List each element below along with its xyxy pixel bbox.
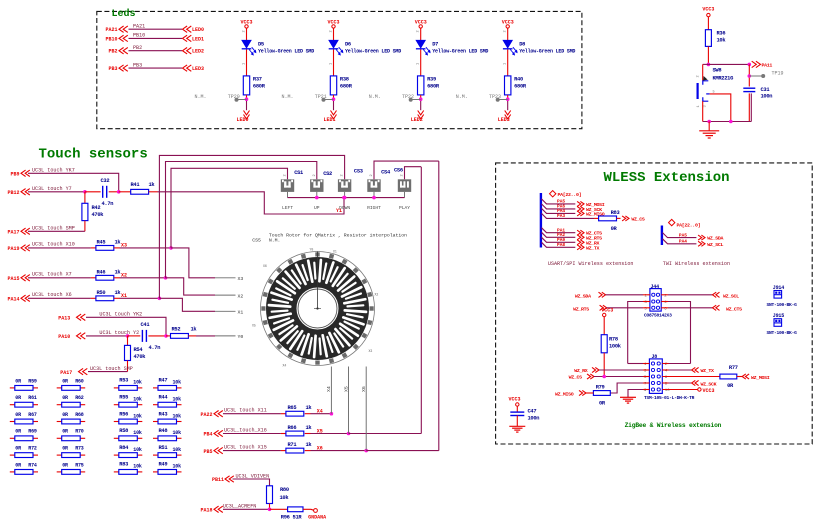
resistor R73 0R	[57, 454, 62, 456]
svg-text:UC3L touch X11: UC3L touch X11	[224, 408, 267, 414]
svg-text:2: 2	[284, 174, 288, 176]
svg-text:R38: R38	[340, 76, 349, 82]
svg-text:1: 1	[504, 63, 508, 65]
rotor stub X6	[365, 367, 367, 451]
svg-text:Yellow-Green LED SMD: Yellow-Green LED SMD	[258, 48, 314, 54]
wire J44.6 to WZ_CTS	[661, 307, 668, 309]
touch button CS1 (LEFT)	[281, 179, 294, 192]
wire	[166, 335, 171, 337]
svg-text:WZ_MOSI: WZ_MOSI	[751, 375, 770, 381]
svg-text:2: 2	[341, 174, 345, 176]
wire	[603, 353, 605, 377]
wire	[148, 335, 166, 337]
node PA17 (2) / net UC3L touch SMP	[88, 371, 128, 373]
resistor R58 10k	[114, 437, 119, 439]
capacitor C31 100n	[743, 88, 755, 91]
svg-text:R52: R52	[172, 326, 181, 332]
wire switch pole to bottom	[710, 94, 731, 122]
resistor R83 10k	[114, 471, 119, 473]
wire bus branch PA5 -> net WZ_MOSI	[542, 199, 576, 204]
svg-text:R66: R66	[288, 425, 297, 431]
svg-text:CS5: CS5	[252, 237, 261, 243]
resistor R71 1k	[286, 448, 304, 453]
touch button CS3 (DOWN)	[338, 179, 351, 192]
junction node SW8/R36	[707, 63, 711, 67]
svg-text:PB2: PB2	[133, 45, 142, 51]
wire	[333, 28, 335, 40]
wire SMP	[28, 230, 85, 232]
wire	[270, 508, 288, 510]
wire J44.4 to J8.2	[661, 301, 668, 303]
Leds section dashed frame	[97, 11, 582, 128]
junction WZ_CS/R78	[602, 375, 606, 379]
junction	[169, 246, 173, 250]
resistor R39 680R	[418, 76, 424, 95]
svg-text:2: 2	[697, 75, 701, 77]
resistor R53 10k	[114, 387, 119, 389]
wire	[269, 504, 271, 510]
wire	[311, 450, 367, 452]
wire button bottom pin	[287, 192, 289, 198]
wire bus branch PA4 -> net WZ_MISO	[542, 208, 576, 213]
svg-text:PB2: PB2	[108, 49, 117, 55]
svg-text:R40: R40	[514, 76, 523, 82]
junction	[158, 297, 162, 301]
junction YK2 joins	[164, 334, 168, 338]
resistor R83 0R	[599, 216, 617, 221]
svg-text:KMR221G: KMR221G	[713, 76, 734, 82]
wire	[516, 416, 518, 427]
capacitor C32 4.7n	[103, 186, 107, 198]
net WZ_MOSI from R77	[742, 374, 749, 379]
ground	[620, 397, 636, 403]
wire CS4 top to X6 riser	[374, 161, 439, 179]
wire X3 to rotor stub	[120, 247, 172, 249]
svg-text:PB12: PB12	[7, 190, 19, 196]
svg-text:PB3: PB3	[108, 66, 117, 72]
svg-text:WZ_RX: WZ_RX	[574, 368, 588, 374]
wire	[246, 95, 248, 99]
svg-text:R73: R73	[75, 446, 84, 452]
svg-text:PA21: PA21	[105, 27, 117, 33]
svg-text:0R: 0R	[15, 446, 21, 452]
svg-text:R78: R78	[609, 337, 618, 343]
wire	[28, 277, 91, 279]
power VCC3 for D8	[506, 25, 509, 28]
svg-text:TP22: TP22	[402, 94, 414, 100]
wire switch common	[702, 101, 704, 121]
net GNDANA terminal	[314, 509, 318, 513]
svg-text:TSM-105-01-L-DH-K-TR: TSM-105-01-L-DH-K-TR	[644, 395, 695, 401]
svg-text:R83: R83	[611, 210, 620, 216]
wire	[305, 413, 311, 415]
svg-text:N.M.: N.M.	[456, 94, 468, 100]
svg-text:CS3: CS3	[354, 169, 363, 175]
svg-text:J8: J8	[652, 354, 658, 360]
wire	[707, 17, 709, 30]
svg-text:PA5: PA5	[679, 232, 687, 238]
svg-text:X1: X1	[238, 310, 244, 316]
power VCC3 for D5	[245, 25, 248, 28]
svg-text:SNT-100-BK-G: SNT-100-BK-G	[767, 302, 798, 308]
touch button CS4 (RIGHT)	[367, 179, 380, 192]
wire	[507, 95, 509, 99]
svg-text:UC3L touch YK2: UC3L touch YK2	[99, 312, 142, 318]
svg-text:Y0: Y0	[238, 334, 244, 340]
svg-text:SNT-100-BK-G: SNT-100-BK-G	[767, 330, 798, 336]
svg-text:R58: R58	[119, 428, 128, 434]
svg-text:R65: R65	[288, 405, 297, 411]
junction	[364, 449, 368, 453]
svg-text:UC3L touch Y2: UC3L touch Y2	[99, 330, 139, 336]
wire	[305, 450, 311, 452]
resistor R74 0R	[10, 471, 15, 473]
junction R42/C32	[83, 190, 87, 194]
svg-text:WZ_CS: WZ_CS	[569, 375, 583, 381]
svg-text:R68: R68	[75, 412, 84, 418]
wire	[84, 221, 86, 232]
svg-text:0R: 0R	[15, 412, 21, 418]
WLESS Extension dashed frame	[496, 163, 813, 444]
svg-text:VCC3: VCC3	[601, 308, 613, 314]
svg-text:LED0: LED0	[237, 117, 249, 123]
svg-text:LEFT: LEFT	[282, 205, 293, 211]
junction at TP21	[332, 97, 336, 101]
svg-text:PA17: PA17	[60, 370, 72, 376]
net WZ_TX from J8.4	[662, 369, 668, 371]
svg-text:Leds: Leds	[112, 8, 136, 20]
resistor R72 0R	[10, 454, 15, 456]
svg-text:0R: 0R	[62, 462, 68, 468]
svg-text:10k: 10k	[717, 38, 727, 44]
bus PA[22..0] (USART/SPI)	[550, 191, 556, 197]
svg-text:R48: R48	[159, 428, 168, 434]
resistor R38 680R	[330, 76, 336, 95]
svg-text:CO8750142X3: CO8750142X3	[644, 313, 672, 319]
connector J44 CO8750142X3	[650, 289, 661, 312]
svg-text:10k: 10k	[173, 464, 182, 470]
junction R80/R96	[268, 508, 272, 512]
resistor R41 1k	[131, 189, 149, 194]
svg-text:R47: R47	[159, 378, 168, 384]
LED D8 Yellow-Green LED SMD	[503, 40, 518, 55]
test point TP19	[749, 75, 762, 77]
svg-text:680R: 680R	[253, 83, 266, 89]
svg-text:R79: R79	[596, 385, 605, 391]
wire button bottom pin	[373, 192, 375, 198]
ground	[509, 426, 525, 432]
svg-text:0R: 0R	[62, 412, 68, 418]
svg-text:R51: R51	[159, 445, 168, 451]
svg-text:2: 2	[330, 30, 334, 32]
junction	[347, 432, 351, 436]
svg-text:SW8: SW8	[713, 68, 722, 74]
wire	[617, 217, 621, 219]
svg-text:PA14: PA14	[7, 297, 19, 303]
svg-text:VCC3: VCC3	[327, 20, 339, 26]
svg-text:C47: C47	[528, 409, 537, 415]
svg-text:Yellow-Green LED SMD: Yellow-Green LED SMD	[432, 48, 488, 54]
svg-text:2: 2	[313, 174, 317, 176]
svg-text:LED0: LED0	[192, 27, 204, 33]
wire bus branch PA9 -> net WZ_RX	[542, 237, 576, 242]
test point TP20	[237, 99, 247, 101]
svg-text:R72: R72	[28, 446, 37, 452]
wire bus branch PA2 -> net WZ_RTS	[542, 232, 576, 237]
svg-text:Touch sensors: Touch sensors	[39, 147, 148, 163]
capacitor C41 4.7n	[142, 330, 146, 342]
rotor stub X3	[215, 277, 236, 279]
resistor R96 51R	[288, 507, 303, 512]
svg-text:TP19: TP19	[772, 71, 784, 77]
svg-text:10k: 10k	[133, 397, 142, 403]
wire	[109, 191, 119, 193]
wire vertical bus X2 to CS2	[166, 162, 317, 278]
svg-text:X5: X5	[343, 386, 349, 392]
svg-text:ZigBee & Wireless extension: ZigBee & Wireless extension	[625, 422, 722, 429]
net LED2 output arrow	[418, 111, 424, 119]
svg-text:R74: R74	[28, 462, 37, 468]
svg-text:PA22: PA22	[200, 412, 212, 418]
svg-text:1: 1	[697, 105, 701, 107]
svg-text:D5: D5	[258, 41, 264, 47]
svg-text:PA10: PA10	[58, 334, 70, 340]
svg-text:10k: 10k	[280, 495, 290, 501]
power VCC3 for SW8	[707, 13, 710, 16]
wire J8.7 to R79	[643, 382, 649, 384]
svg-text:D7: D7	[432, 41, 438, 47]
svg-text:R80: R80	[280, 487, 289, 493]
wire J44.3 to J8.1	[643, 301, 650, 303]
svg-text:2: 2	[417, 30, 421, 32]
svg-text:R77: R77	[729, 365, 738, 371]
svg-text:R61: R61	[28, 395, 37, 401]
resistor R62 0R	[57, 404, 62, 406]
svg-text:R37: R37	[253, 76, 262, 82]
wire	[606, 294, 644, 296]
svg-text:R42: R42	[92, 205, 101, 211]
svg-text:X2: X2	[375, 293, 379, 297]
svg-text:10k: 10k	[133, 380, 142, 386]
svg-text:CS6: CS6	[394, 167, 403, 173]
svg-text:2: 2	[243, 30, 247, 32]
resistor R55 10k	[114, 404, 119, 406]
svg-text:10k: 10k	[133, 413, 142, 419]
svg-text:RIGHT: RIGHT	[367, 205, 381, 211]
junction	[330, 412, 334, 416]
junction for TP19	[748, 74, 752, 78]
svg-text:WZ_CS: WZ_CS	[631, 216, 645, 222]
svg-text:R83: R83	[119, 462, 128, 468]
resistor R49 10k	[153, 471, 158, 473]
net PA11 output	[752, 61, 761, 67]
wire to ground	[708, 122, 710, 131]
svg-text:PB11: PB11	[212, 477, 224, 483]
power VCC3 for D6	[332, 25, 335, 28]
wire	[333, 50, 335, 76]
svg-text:100n: 100n	[528, 416, 540, 422]
svg-text:Yellow-Green LED SMD: Yellow-Green LED SMD	[345, 48, 401, 54]
junction YK7/C32	[117, 190, 121, 194]
wire button bottom pin	[316, 192, 318, 198]
svg-text:PLAY: PLAY	[399, 205, 410, 211]
svg-text:PA17: PA17	[7, 230, 19, 236]
svg-text:UC3L touch Y7: UC3L touch Y7	[32, 186, 72, 192]
junction at TP23	[506, 97, 510, 101]
wire	[128, 335, 141, 337]
svg-text:VCC3: VCC3	[703, 388, 715, 394]
svg-text:1: 1	[330, 63, 334, 65]
svg-text:C41: C41	[141, 322, 150, 328]
svg-text:680R: 680R	[514, 83, 527, 89]
resistor R61 0R	[10, 404, 15, 406]
net WZ_CS output	[622, 216, 629, 221]
svg-text:D6: D6	[345, 41, 351, 47]
svg-text:D8: D8	[519, 41, 525, 47]
svg-text:R53: R53	[119, 378, 128, 384]
touch rotor CS5 graphic	[252, 248, 378, 368]
resistor R54 470k	[127, 336, 129, 346]
wire	[223, 413, 281, 415]
svg-text:470k: 470k	[92, 212, 105, 218]
svg-text:GNDANA: GNDANA	[308, 514, 326, 520]
svg-text:PB3: PB3	[133, 62, 142, 68]
wire X1 to rotor stub	[120, 297, 160, 299]
wire J44.2 to WZ_SCL	[661, 294, 668, 296]
svg-text:X3: X3	[238, 276, 244, 282]
net WZ_SCK from J8.8	[662, 382, 668, 384]
rotor stub X5	[348, 367, 350, 434]
svg-text:TP21: TP21	[315, 94, 327, 100]
svg-text:R49: R49	[159, 462, 168, 468]
svg-text:R41: R41	[131, 182, 140, 188]
svg-text:TP23: TP23	[489, 94, 501, 100]
resistor R60 0R	[57, 387, 62, 389]
junction at TP20	[245, 97, 249, 101]
touch button CS6 (PLAY)	[398, 179, 411, 192]
wire	[114, 297, 120, 299]
resistor R44 10k	[153, 404, 158, 406]
svg-text:LED2: LED2	[411, 117, 423, 123]
svg-text:WZ_SCL: WZ_SCL	[723, 293, 739, 299]
LED D7 Yellow-Green LED SMD	[416, 40, 431, 55]
svg-text:USART/SPI Wireless extension: USART/SPI Wireless extension	[548, 261, 634, 267]
rotor stub Y0	[215, 335, 236, 337]
svg-text:PA18: PA18	[200, 508, 212, 514]
svg-text:LED3: LED3	[192, 66, 204, 72]
wire bus branch PA3 -> R83	[542, 213, 595, 218]
svg-text:0R: 0R	[15, 378, 21, 384]
svg-text:N.M.: N.M.	[369, 94, 381, 100]
svg-text:4.7n: 4.7n	[149, 345, 161, 351]
svg-text:X4: X4	[283, 364, 287, 368]
wire	[311, 433, 349, 435]
wire	[516, 406, 518, 412]
wire	[748, 93, 750, 121]
net LED0 output arrow	[244, 111, 250, 119]
net LED3 output arrow	[505, 111, 511, 119]
svg-text:WLESS Extension: WLESS Extension	[604, 170, 730, 186]
svg-text:R75: R75	[75, 462, 84, 468]
svg-text:PB4: PB4	[203, 432, 212, 438]
wire YK2	[86, 317, 166, 336]
net WZ_MISO input	[579, 390, 586, 395]
svg-text:LED3: LED3	[498, 117, 510, 123]
svg-text:470k: 470k	[134, 354, 147, 360]
wire	[114, 277, 120, 279]
svg-text:X2: X2	[238, 293, 244, 299]
rotor stub X1	[215, 310, 236, 312]
svg-text:PA[22..0]: PA[22..0]	[677, 222, 701, 228]
svg-text:0R: 0R	[15, 429, 21, 435]
resistor R77 0R	[720, 374, 737, 379]
svg-text:R71: R71	[288, 442, 297, 448]
resistor R51 10k	[153, 454, 158, 456]
resistor R66 1k	[286, 431, 304, 436]
wire	[420, 28, 422, 40]
wire CS6 top to X5 riser	[405, 167, 422, 180]
resistor R48 10k	[153, 437, 158, 439]
wire J8.6 to R77	[662, 376, 720, 378]
svg-text:X4: X4	[326, 386, 332, 392]
svg-text:WZ_TX: WZ_TX	[701, 368, 715, 374]
svg-text:X6: X6	[263, 264, 267, 268]
svg-text:CS2: CS2	[323, 171, 332, 177]
wire	[599, 369, 643, 371]
svg-text:10k: 10k	[133, 464, 142, 470]
svg-text:R60: R60	[75, 378, 84, 384]
svg-text:N.M.: N.M.	[269, 237, 281, 243]
wire net Y1 from R41 to button bus	[149, 191, 158, 193]
wire	[303, 509, 314, 510]
wire X6 riser to buttons	[366, 450, 439, 452]
wire vertical bus X3 to CS1	[171, 168, 288, 248]
svg-text:1: 1	[417, 63, 421, 65]
wire	[119, 191, 131, 193]
svg-text:WZ_CTS: WZ_CTS	[726, 306, 742, 312]
svg-text:PA8: PA8	[557, 242, 565, 248]
wire	[607, 307, 643, 309]
wire X2 to rotor stub	[120, 277, 166, 279]
wire	[420, 95, 422, 99]
svg-text:R44: R44	[159, 395, 169, 401]
resistor R67 0R	[10, 421, 15, 423]
resistor R46 1k	[96, 275, 114, 280]
svg-text:100n: 100n	[761, 94, 773, 100]
svg-text:WZ_SCL: WZ_SCL	[707, 242, 723, 248]
wire	[748, 64, 750, 86]
resistor R75 0R	[57, 471, 62, 473]
svg-text:R67: R67	[28, 412, 37, 418]
svg-text:2: 2	[370, 174, 374, 176]
wire	[586, 392, 593, 394]
resistor R45 1k	[96, 246, 114, 251]
svg-text:R54: R54	[134, 347, 144, 353]
wire	[305, 433, 311, 435]
svg-text:10k: 10k	[173, 397, 182, 403]
wire	[28, 247, 91, 249]
svg-text:680R: 680R	[340, 83, 353, 89]
svg-text:N.M.: N.M.	[195, 94, 207, 100]
svg-text:0R: 0R	[15, 462, 21, 468]
svg-text:J44: J44	[651, 284, 660, 290]
svg-text:N.M.: N.M.	[282, 94, 294, 100]
svg-text:PB5: PB5	[203, 449, 212, 455]
svg-text:UC3L touch X10: UC3L touch X10	[32, 242, 75, 248]
svg-text:R59: R59	[28, 378, 37, 384]
svg-text:VCC3: VCC3	[240, 20, 252, 26]
wire	[246, 50, 248, 76]
